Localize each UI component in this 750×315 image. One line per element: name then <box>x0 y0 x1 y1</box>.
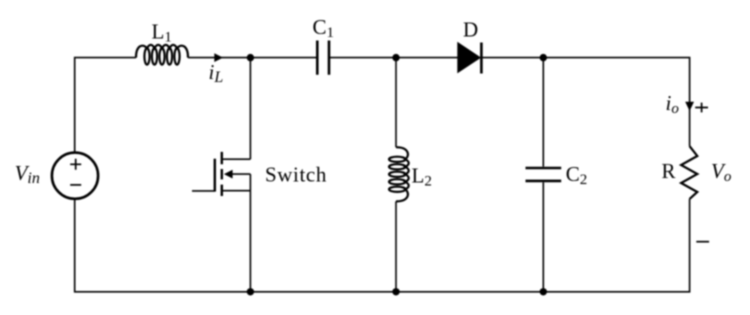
wire top-left <box>75 58 136 152</box>
wire node B to L2 <box>395 58 397 148</box>
wire diode to top-right corner <box>481 58 689 147</box>
minus sign output <box>696 241 709 243</box>
wire L2 to bottom <box>395 201 397 291</box>
resistor R <box>681 146 697 199</box>
wire node C to C2 <box>542 58 544 167</box>
junction node A top <box>247 54 254 61</box>
wire right rail below resistor <box>75 199 690 292</box>
capacitor C1 <box>317 41 329 75</box>
svg-text:R: R <box>662 159 676 183</box>
wire C2 to bottom <box>542 182 544 291</box>
junction node B top <box>392 54 399 61</box>
wire mosfet drain <box>249 58 251 160</box>
arrow io <box>685 102 694 111</box>
wire L1 to C1 <box>188 57 316 59</box>
inductor L1 <box>136 45 188 65</box>
junction node C bottom <box>540 288 547 295</box>
svg-text:Switch: Switch <box>265 162 327 186</box>
voltage source Vin <box>52 153 98 199</box>
diode D <box>458 43 480 73</box>
transistor Q1 (MOSFET switch) <box>192 152 250 196</box>
arrow iL <box>214 53 223 62</box>
junction node B bottom <box>392 288 399 295</box>
svg-text:D: D <box>463 18 478 42</box>
wire mosfet source to bottom <box>249 191 251 292</box>
wire C1 to diode <box>330 57 458 59</box>
inductor L2 <box>389 147 409 201</box>
junction node C top <box>540 54 547 61</box>
junction node A bottom <box>247 288 254 295</box>
capacitor C2 <box>526 168 562 181</box>
plus sign output <box>695 103 708 113</box>
